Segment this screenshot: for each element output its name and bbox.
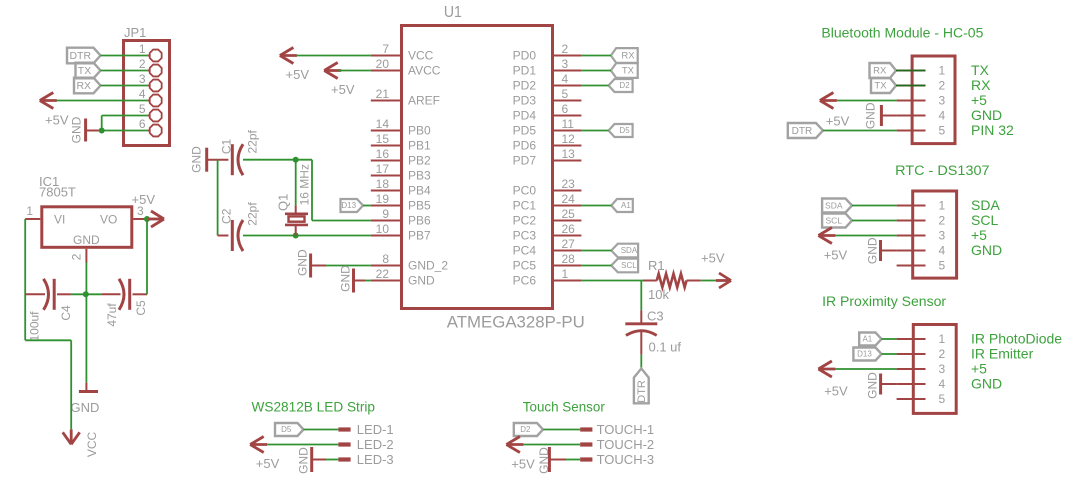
svg-text:PD1: PD1 — [513, 64, 537, 78]
svg-text:+5V: +5V — [826, 113, 850, 128]
svg-text:D13: D13 — [341, 201, 356, 210]
svg-text:SDA: SDA — [971, 197, 1000, 213]
svg-text:5: 5 — [939, 124, 946, 138]
svg-text:IR Proximity Sensor: IR Proximity Sensor — [822, 294, 947, 309]
svg-text:1: 1 — [562, 267, 569, 281]
svg-text:1: 1 — [939, 332, 946, 346]
svg-text:Bluetooth Module - HC-05: Bluetooth Module - HC-05 — [821, 26, 983, 41]
svg-text:23: 23 — [562, 177, 576, 191]
svg-text:+5V: +5V — [256, 456, 280, 471]
svg-text:+5: +5 — [971, 361, 987, 377]
svg-text:PC0: PC0 — [513, 184, 537, 198]
svg-text:12: 12 — [562, 132, 576, 146]
svg-text:JP1: JP1 — [124, 25, 146, 40]
svg-text:5: 5 — [562, 87, 569, 101]
svg-text:+5V: +5V — [286, 67, 310, 82]
svg-text:21: 21 — [376, 87, 390, 101]
svg-text:25: 25 — [562, 207, 576, 221]
svg-text:DTR: DTR — [69, 50, 91, 62]
svg-text:DTR: DTR — [636, 380, 648, 403]
svg-text:6: 6 — [139, 117, 146, 131]
svg-text:7805T: 7805T — [39, 185, 76, 200]
svg-text:D13: D13 — [857, 350, 872, 359]
svg-text:C4: C4 — [59, 305, 73, 321]
svg-text:TOUCH-2: TOUCH-2 — [597, 437, 655, 452]
svg-text:PC2: PC2 — [513, 214, 537, 228]
svg-text:GND: GND — [296, 249, 310, 276]
svg-text:VI: VI — [54, 213, 65, 227]
svg-text:3: 3 — [939, 362, 946, 376]
svg-text:17: 17 — [376, 162, 390, 176]
svg-text:GND: GND — [70, 116, 84, 143]
svg-text:R1: R1 — [648, 258, 665, 273]
svg-text:+5V: +5V — [45, 113, 69, 128]
svg-text:2: 2 — [939, 79, 946, 93]
svg-text:5: 5 — [939, 259, 946, 273]
svg-text:GND: GND — [408, 274, 435, 288]
svg-text:PB7: PB7 — [408, 229, 431, 243]
svg-text:RX: RX — [971, 77, 991, 93]
svg-text:28: 28 — [562, 252, 576, 266]
svg-text:0.1 uf: 0.1 uf — [649, 340, 682, 355]
svg-text:PD3: PD3 — [513, 94, 537, 108]
svg-text:8: 8 — [382, 252, 389, 266]
svg-text:PD0: PD0 — [513, 49, 537, 63]
svg-text:11: 11 — [562, 117, 575, 131]
svg-text:4: 4 — [939, 377, 946, 391]
svg-text:GND: GND — [863, 102, 877, 129]
svg-text:A1: A1 — [621, 201, 631, 210]
svg-text:PB6: PB6 — [408, 214, 431, 228]
svg-text:DTR: DTR — [792, 126, 813, 137]
svg-text:+5V: +5V — [824, 383, 848, 398]
svg-text:10: 10 — [376, 222, 390, 236]
svg-text:GND: GND — [971, 107, 1002, 123]
svg-text:47uf: 47uf — [105, 303, 119, 327]
svg-text:Q1: Q1 — [276, 194, 291, 211]
svg-text:+5V: +5V — [331, 82, 355, 97]
svg-text:9: 9 — [382, 207, 389, 221]
svg-text:PB1: PB1 — [408, 139, 431, 153]
svg-text:PD2: PD2 — [513, 79, 537, 93]
svg-text:2: 2 — [139, 57, 146, 71]
svg-text:AVCC: AVCC — [408, 64, 441, 78]
svg-text:VO: VO — [100, 213, 117, 227]
svg-text:PD6: PD6 — [513, 139, 537, 153]
svg-text:GND: GND — [971, 376, 1002, 392]
svg-text:SCL: SCL — [826, 215, 843, 225]
svg-text:PD4: PD4 — [513, 109, 537, 123]
svg-text:VCC: VCC — [85, 432, 99, 458]
svg-text:6: 6 — [562, 102, 569, 116]
svg-text:RTC - DS1307: RTC - DS1307 — [895, 163, 990, 178]
svg-text:15: 15 — [376, 132, 390, 146]
svg-text:100uf: 100uf — [27, 311, 41, 342]
svg-text:PC1: PC1 — [513, 199, 537, 213]
svg-text:D5: D5 — [619, 126, 630, 135]
svg-text:19: 19 — [376, 192, 390, 206]
svg-text:SCL: SCL — [971, 212, 998, 228]
svg-text:RX: RX — [76, 80, 91, 92]
svg-text:RX: RX — [873, 66, 887, 77]
svg-text:24: 24 — [562, 192, 576, 206]
svg-text:GND: GND — [865, 372, 879, 399]
svg-text:PB4: PB4 — [408, 184, 431, 198]
svg-text:4: 4 — [939, 244, 946, 258]
svg-text:1: 1 — [939, 64, 946, 78]
svg-text:C5: C5 — [134, 300, 148, 316]
svg-text:D5: D5 — [281, 425, 292, 434]
svg-text:PB5: PB5 — [408, 199, 431, 213]
svg-text:GND: GND — [971, 242, 1002, 258]
svg-text:GND: GND — [71, 400, 100, 415]
svg-text:+5: +5 — [971, 92, 987, 108]
svg-text:+5V: +5V — [701, 251, 725, 266]
svg-text:2: 2 — [562, 42, 569, 56]
svg-text:5: 5 — [939, 392, 946, 406]
svg-text:U1: U1 — [444, 4, 462, 21]
svg-text:PB2: PB2 — [408, 154, 431, 168]
svg-text:VCC: VCC — [408, 49, 434, 63]
svg-text:16 MHz: 16 MHz — [298, 164, 312, 205]
svg-text:4: 4 — [562, 72, 569, 86]
svg-text:RX: RX — [621, 51, 635, 62]
svg-text:PC4: PC4 — [513, 244, 537, 258]
svg-text:7: 7 — [382, 42, 389, 56]
svg-text:A1: A1 — [862, 335, 872, 344]
svg-text:TX: TX — [622, 66, 635, 77]
svg-text:PC3: PC3 — [513, 229, 537, 243]
svg-text:LED-1: LED-1 — [357, 422, 394, 437]
svg-text:C2: C2 — [219, 208, 233, 224]
svg-text:22: 22 — [376, 267, 390, 281]
svg-text:14: 14 — [376, 117, 390, 131]
svg-text:GND: GND — [297, 447, 311, 474]
svg-text:+5: +5 — [971, 227, 987, 243]
svg-text:PC6: PC6 — [513, 274, 537, 288]
svg-text:TX: TX — [874, 81, 887, 92]
svg-text:TX: TX — [78, 65, 91, 77]
svg-text:18: 18 — [376, 177, 390, 191]
svg-text:3: 3 — [939, 94, 946, 108]
svg-text:4: 4 — [139, 87, 146, 101]
svg-text:ATMEGA328P-PU: ATMEGA328P-PU — [447, 313, 585, 331]
svg-text:AREF: AREF — [408, 94, 440, 108]
svg-text:WS2812B LED Strip: WS2812B LED Strip — [252, 400, 376, 415]
svg-text:GND: GND — [73, 233, 100, 247]
svg-text:1: 1 — [139, 42, 146, 56]
svg-text:LED-3: LED-3 — [357, 452, 394, 467]
svg-text:20: 20 — [376, 57, 390, 71]
svg-text:13: 13 — [562, 147, 576, 161]
svg-text:PIN 32: PIN 32 — [971, 122, 1014, 138]
svg-text:GND_2: GND_2 — [408, 259, 448, 273]
svg-text:GND: GND — [866, 237, 880, 264]
svg-text:D2: D2 — [619, 81, 630, 90]
svg-text:16: 16 — [376, 147, 390, 161]
svg-text:+5V: +5V — [511, 457, 535, 472]
svg-text:2: 2 — [939, 347, 946, 361]
svg-text:SCL: SCL — [621, 261, 637, 270]
svg-text:1: 1 — [26, 204, 33, 218]
svg-text:SDA: SDA — [621, 246, 638, 255]
svg-text:IR Emitter: IR Emitter — [971, 346, 1034, 362]
svg-text:26: 26 — [562, 222, 576, 236]
svg-text:PD5: PD5 — [513, 124, 537, 138]
svg-text:2: 2 — [70, 253, 84, 260]
svg-text:C3: C3 — [647, 309, 664, 324]
svg-text:5: 5 — [139, 102, 146, 116]
svg-text:PD7: PD7 — [513, 154, 537, 168]
svg-text:PC5: PC5 — [513, 259, 537, 273]
svg-text:SDA: SDA — [825, 200, 843, 210]
svg-text:TOUCH-3: TOUCH-3 — [597, 452, 655, 467]
svg-text:1: 1 — [939, 199, 946, 213]
svg-text:4: 4 — [939, 109, 946, 123]
svg-text:PB0: PB0 — [408, 124, 431, 138]
svg-text:D2: D2 — [520, 425, 531, 434]
svg-text:3: 3 — [139, 72, 146, 86]
svg-text:GND: GND — [339, 265, 353, 292]
svg-text:2: 2 — [939, 214, 946, 228]
svg-text:3: 3 — [939, 229, 946, 243]
svg-text:10k: 10k — [648, 287, 669, 302]
svg-text:IR PhotoDiode: IR PhotoDiode — [971, 331, 1062, 347]
svg-text:+5V: +5V — [824, 247, 848, 262]
svg-text:27: 27 — [562, 237, 576, 251]
svg-text:+5V: +5V — [132, 192, 156, 207]
svg-text:GND: GND — [537, 447, 551, 474]
svg-text:22pf: 22pf — [245, 202, 259, 226]
svg-text:PB3: PB3 — [408, 169, 431, 183]
svg-text:TOUCH-1: TOUCH-1 — [597, 422, 655, 437]
svg-text:C1: C1 — [219, 139, 233, 155]
svg-text:GND: GND — [190, 146, 204, 173]
svg-text:LED-2: LED-2 — [357, 437, 394, 452]
svg-text:TX: TX — [971, 62, 990, 78]
svg-text:Touch Sensor: Touch Sensor — [523, 400, 605, 415]
svg-text:3: 3 — [562, 57, 569, 71]
svg-text:22pf: 22pf — [245, 129, 259, 153]
